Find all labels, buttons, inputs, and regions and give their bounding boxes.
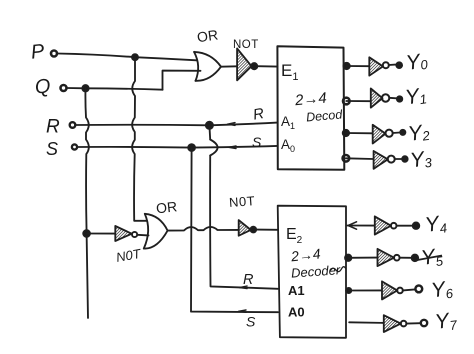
svg-text:S: S [252, 134, 262, 150]
output Y6 row [346, 288, 351, 293]
svg-text:A1: A1 [288, 283, 305, 298]
svg-text:OR: OR [196, 26, 219, 45]
wire P to OR1 top input [58, 54, 197, 61]
decoder1 box [277, 46, 344, 170]
svg-text:Y1: Y1 [404, 84, 428, 110]
wire R to decoder1 A1 [76, 123, 278, 126]
svg-text:R: R [243, 272, 254, 288]
bubble NOT1 [251, 63, 257, 69]
svg-text:Y7: Y7 [434, 308, 459, 335]
scribble over Decoder end [330, 267, 346, 272]
input R terminal [70, 122, 76, 128]
wire vertical P drop with hops over Q R S [132, 57, 147, 221]
output Y2 row [343, 130, 349, 136]
svg-text:A1: A1 [281, 114, 295, 131]
arrow tick on lower S wire [239, 310, 247, 312]
wire step up to OR1 bottom input [163, 71, 201, 90]
svg-text:A0: A0 [288, 305, 305, 320]
svg-text:N0T: N0T [229, 193, 256, 210]
output Y4 row with arrow into decoder2 [348, 225, 375, 227]
wire NOT3 to OR2 [137, 234, 148, 237]
svg-text:R: R [252, 105, 266, 124]
arrow tick on S wire [229, 146, 237, 149]
output Y3 row [343, 155, 350, 162]
wire vertical S drop to decoder2 A0 [191, 148, 278, 313]
svg-text:Y6: Y6 [430, 277, 455, 304]
node on P line [132, 54, 138, 60]
node junction to NOT3 [83, 230, 90, 237]
svg-text:2→4: 2→4 [293, 90, 327, 110]
svg-text:OR: OR [155, 198, 178, 216]
bubble NOT3 [132, 232, 137, 237]
wire vertical R drop to decoder2 A1 with arc hop over S [209, 125, 278, 288]
svg-text:R: R [46, 117, 60, 138]
input Q terminal [61, 85, 67, 91]
svg-text:A0: A0 [281, 137, 295, 154]
wire vertical Q drop with hops over R and S [85, 88, 88, 318]
output Y7 row [349, 321, 384, 324]
svg-text:Y0: Y0 [405, 49, 430, 75]
svg-text:P: P [30, 40, 46, 63]
bubble NOT5 [250, 227, 256, 233]
wire OR1 output to NOT1 [221, 65, 237, 67]
decoder2 box [278, 206, 346, 338]
NOT gate U2 (inverter to E1) [237, 49, 251, 81]
svg-text:S: S [46, 139, 58, 159]
svg-text:Decod: Decod [306, 107, 344, 124]
output Y0 row [343, 63, 349, 69]
OR gate U4 (bottom) [144, 214, 148, 249]
wire junction to NOT3 input [87, 233, 116, 235]
svg-text:S: S [246, 314, 256, 330]
wire S to decoder1 A0 [78, 146, 278, 148]
svg-text:E1: E1 [281, 61, 298, 83]
hop arc over S [210, 140, 217, 156]
svg-text:2→4: 2→4 [289, 245, 321, 264]
svg-text:Q: Q [34, 75, 52, 99]
input S terminal [72, 144, 77, 149]
node on S line [188, 144, 195, 151]
svg-text:NOT: NOT [233, 39, 259, 51]
output Y5 row [345, 255, 351, 261]
wire NOT5 to decoder2 E2 [256, 229, 278, 231]
node on R line [206, 122, 213, 129]
arrow tick on R wire [228, 123, 236, 126]
wire OR2 output with hops over verticals [168, 227, 239, 231]
wire Q to step [67, 88, 163, 90]
svg-text:N0T: N0T [115, 246, 143, 265]
output Y1 row [343, 98, 350, 105]
input P terminal [51, 51, 57, 57]
svg-text:Decoder: Decoder [291, 262, 342, 280]
svg-text:E2: E2 [286, 226, 303, 246]
strike over Y5 [418, 256, 443, 261]
svg-text:Y3: Y3 [409, 147, 434, 173]
svg-text:Y4: Y4 [424, 211, 448, 238]
wire NOT1 to decoder1 E1 [257, 65, 277, 67]
arrow tick on lower R wire [240, 286, 248, 289]
NOT gate U3 (bottom left inverter) [115, 226, 132, 241]
svg-text:Y2: Y2 [407, 120, 432, 146]
NOT gate U5 (inverter to E2) [239, 220, 251, 236]
node on Q line [82, 85, 88, 91]
OR gate U1 [194, 52, 198, 81]
